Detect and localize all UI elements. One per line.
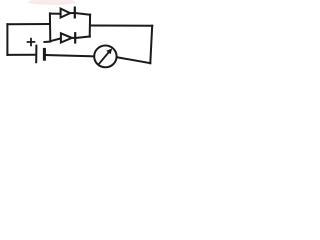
node A left junction of parallel branches: [49, 13, 51, 41]
wire top-left horizontal: [7, 23, 49, 25]
wire from D2 cathode: [76, 37, 90, 38]
wire from D1 cathode: [76, 13, 90, 15]
meter M1 needle arrowhead: [106, 48, 112, 54]
wire right rail: [150, 26, 152, 64]
diode D1: [61, 8, 75, 18]
wire output to right rail: [90, 25, 152, 27]
meter M1 body: [94, 46, 116, 68]
wire left rail: [6, 24, 8, 55]
wire to diode D1 anode: [50, 13, 60, 15]
wire bottom-right to meter: [117, 57, 151, 63]
diode D2: [61, 33, 75, 42]
label plus sign: [28, 39, 35, 46]
wire bottom-left to battery: [7, 54, 36, 56]
battery B1 negative plate: [43, 49, 46, 59]
wire to diode D2 anode: [50, 38, 60, 41]
meter M1 needle: [99, 51, 110, 64]
label minus sign: [44, 41, 49, 43]
node B right junction of parallel branches: [89, 15, 91, 37]
battery B1 positive plate: [35, 46, 37, 63]
wire battery to meter: [46, 55, 95, 56]
